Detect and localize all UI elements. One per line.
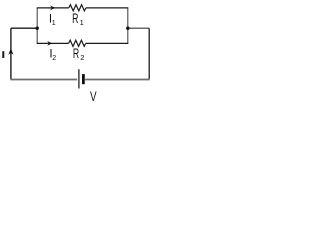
node: left junction dot bbox=[36, 27, 39, 30]
resistor R1 bbox=[69, 5, 86, 11]
wire: branch 2 from left connector to resistor R2 bbox=[37, 42, 69, 44]
svg-text:1: 1 bbox=[52, 20, 56, 27]
wire: right connector between branches bbox=[127, 8, 129, 44]
arrowhead I (current arrow, left edge, pointing up) bbox=[8, 49, 13, 55]
wire: left connector between branches bbox=[36, 8, 38, 44]
wire: right edge of outer loop bbox=[148, 28, 150, 79]
svg-text:V: V bbox=[90, 88, 97, 104]
wire: right stub from junction to outer loop bbox=[128, 27, 149, 29]
svg-text:2: 2 bbox=[80, 53, 84, 62]
svg-text:R: R bbox=[72, 10, 78, 26]
background bbox=[0, 0, 159, 105]
wire: left stub from outer loop to junction bbox=[11, 27, 37, 29]
svg-text:2: 2 bbox=[52, 55, 56, 62]
arrowhead I1 (current arrow, top branch) bbox=[50, 6, 55, 11]
battery V: short thick negative plate bbox=[82, 74, 85, 84]
svg-text:R: R bbox=[73, 45, 79, 61]
svg-text:1: 1 bbox=[80, 18, 84, 27]
wire: resistor R1 to right corner bbox=[86, 7, 128, 9]
wire: bottom edge right of battery bbox=[85, 79, 149, 81]
wire: top branch left corner to resistor R1 bbox=[37, 7, 69, 9]
label I (total current) bbox=[2, 51, 4, 58]
arrowhead I2 (current arrow, branch 2) bbox=[47, 41, 52, 46]
battery V: long thin positive plate bbox=[78, 69, 80, 88]
wire: resistor R2 to right connector bbox=[86, 42, 129, 44]
wire: bottom edge left of battery bbox=[10, 79, 77, 81]
node: right junction dot bbox=[126, 27, 129, 30]
resistor R2 bbox=[69, 40, 86, 46]
wire: left edge of outer loop bbox=[10, 28, 12, 79]
